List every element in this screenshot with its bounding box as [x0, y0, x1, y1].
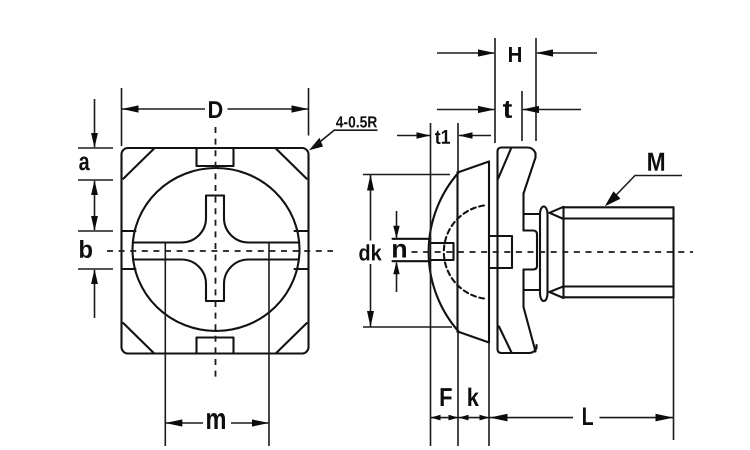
dimension a extension lines [78, 148, 113, 180]
head bottom edge [459, 332, 489, 343]
thread runout cone bottom [550, 286, 564, 298]
dimension a arrow top [94, 99, 96, 147]
washer chamfer line top-left [498, 149, 511, 180]
washer notch upper step [524, 231, 538, 270]
label 4-0.5R [336, 116, 377, 127]
M label leader [607, 176, 682, 205]
recess bottom slot [430, 243, 454, 260]
dimension D extension lines [122, 88, 309, 146]
head circle [133, 168, 300, 331]
washer right edge lower [522, 270, 524, 308]
thread major diameter lines [564, 207, 674, 297]
thread end face [672, 207, 674, 297]
neck lines between head and washer [489, 236, 512, 268]
label b [80, 240, 92, 258]
recess fillet top-left [182, 218, 207, 243]
t dimension arrows [437, 109, 581, 111]
corner chamfer bottom-right [276, 323, 307, 353]
washer boss top line [524, 213, 541, 215]
thread start boundary line [562, 207, 564, 297]
label k [468, 388, 479, 406]
label M [648, 153, 664, 171]
4-0.5R leader line [313, 130, 378, 147]
dk extension lines [363, 175, 452, 328]
label a [79, 157, 90, 171]
head crown junction line [456, 172, 458, 332]
n dimension arrows [396, 211, 398, 238]
washer left face [498, 148, 502, 354]
horizontal centerline left view [107, 250, 333, 252]
dimension b extension lines [78, 231, 113, 269]
label H [509, 47, 521, 62]
H extension lines [495, 38, 536, 143]
label D [209, 101, 222, 118]
washer chamfer line top-right [524, 158, 536, 194]
F/k/L extension lines [489, 298, 674, 446]
thread runout cone top [550, 207, 564, 219]
square washer outline [122, 148, 309, 354]
recess fillet top-right [224, 218, 249, 243]
t extension line [521, 91, 523, 141]
vertical centerline [215, 127, 217, 379]
label n [393, 244, 406, 258]
washer chamfer line bottom-right [524, 307, 536, 352]
k dimension [459, 417, 490, 419]
thread minor diameter lines [564, 219, 674, 287]
head crown arc [429, 172, 459, 332]
dimension a/b double arrow [94, 181, 96, 230]
label t1 [435, 130, 450, 144]
recess fillet bottom-right [224, 260, 249, 285]
top edge notch [197, 149, 234, 167]
corner chamfer top-right [276, 149, 307, 179]
corner chamfer bottom-left [123, 323, 154, 353]
t1 dimension arrows [397, 135, 491, 137]
dimension m line [165, 422, 269, 424]
corner chamfer top-left [123, 149, 154, 179]
label t [503, 101, 512, 118]
dimension D arrowheads [122, 105, 139, 112]
head right face [488, 162, 490, 343]
axis centerline right view [412, 251, 694, 253]
F dimension [431, 417, 459, 419]
hidden recess arc (dashed) [444, 206, 484, 299]
label L [583, 408, 593, 426]
right edge slot [295, 231, 309, 269]
t1 extension lines (long, shared with F) [431, 123, 459, 446]
recess horizontal slot lines [133, 243, 299, 260]
washer bottom edge [502, 345, 537, 353]
left edge slot [122, 231, 136, 269]
dk dimension line [370, 175, 372, 328]
dimension m extension lines [165, 243, 269, 446]
recess surface slot lines [393, 239, 431, 261]
head top edge [459, 162, 489, 173]
dimension m arrowheads [165, 419, 182, 426]
spring washer (stadium) [540, 207, 548, 302]
4-0.5R leader arrowhead [309, 138, 323, 151]
recess fillet bottom-left [182, 260, 207, 285]
recess vertical arm [206, 196, 224, 302]
dimension D line [122, 108, 309, 110]
dimension b arrow bottom [94, 270, 96, 318]
label F [441, 388, 452, 406]
washer right edge upper [522, 194, 524, 231]
washer chamfer line bottom-left [499, 327, 512, 353]
washer top edge [502, 148, 536, 158]
bottom edge notch [197, 338, 234, 354]
L dimension [490, 417, 674, 419]
H dimension arrows [437, 52, 597, 54]
washer boss bottom line [524, 289, 541, 291]
label m [207, 413, 225, 429]
label dk [359, 244, 381, 260]
